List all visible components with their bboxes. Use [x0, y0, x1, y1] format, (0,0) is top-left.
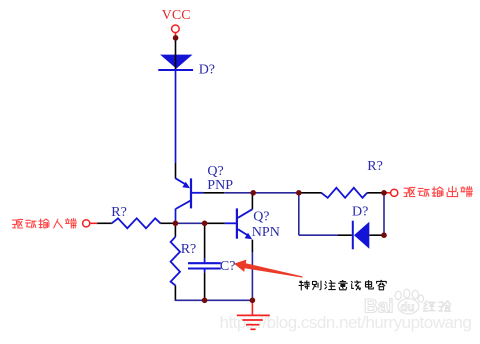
svg-text:NPN: NPN [252, 225, 280, 240]
svg-text:C?: C? [220, 259, 236, 274]
svg-text:R?: R? [367, 159, 383, 174]
svg-text:D?: D? [352, 205, 368, 220]
svg-text:PNP: PNP [207, 178, 233, 193]
svg-text:R?: R? [111, 205, 127, 220]
svg-text:D?: D? [199, 62, 215, 77]
svg-text:Bai: Bai [364, 297, 394, 318]
svg-text:du: du [401, 302, 415, 314]
svg-text:VCC: VCC [162, 8, 191, 23]
svg-text:R?: R? [181, 242, 197, 257]
svg-text:Q?: Q? [253, 210, 269, 225]
svg-text:Q?: Q? [207, 164, 223, 179]
